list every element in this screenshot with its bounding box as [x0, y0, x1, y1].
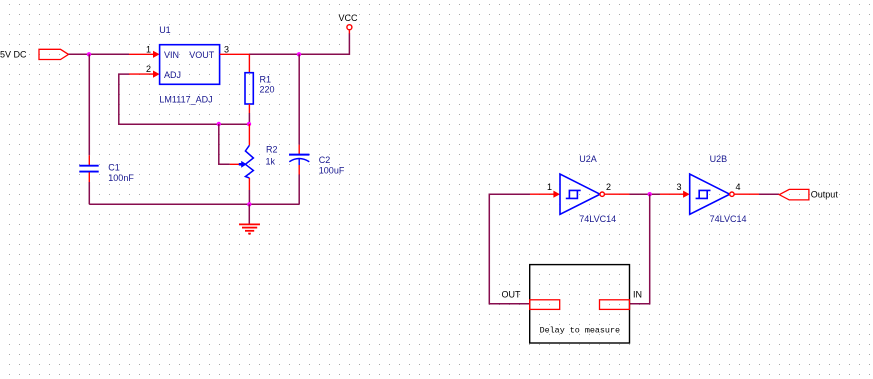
pin 4 of U2B: [734, 182, 759, 194]
svg-text:LM1117_ADJ: LM1117_ADJ: [159, 94, 212, 104]
wire C1 bottom: [88, 182, 90, 204]
svg-text:220: 220: [260, 85, 275, 95]
wire C2 bottom: [298, 175, 300, 205]
wire C2 top branch: [298, 54, 300, 145]
delay box Delay to measure: [530, 265, 630, 343]
svg-text:R1: R1: [260, 75, 272, 85]
wire wiper net: [219, 124, 230, 164]
svg-text:C2: C2: [319, 155, 331, 165]
node junction at 249,124: [247, 122, 251, 126]
node junction at 249.3,204: [247, 202, 251, 206]
op-amp U1 LM1117_ADJ body: [160, 45, 220, 85]
svg-text:1: 1: [547, 182, 552, 192]
pin 2 of U2A: [604, 182, 629, 194]
svg-text:2: 2: [146, 64, 151, 74]
svg-text:R2: R2: [266, 145, 278, 155]
wire junction down to IN port: [630, 194, 650, 304]
svg-text:U1: U1: [159, 25, 171, 35]
svg-text:VIN: VIN: [164, 50, 179, 60]
svg-text:3: 3: [224, 44, 229, 54]
node junction at 218.8,124: [217, 122, 221, 126]
pin 1 VIN of U1: [129, 44, 160, 58]
resistor R2 1k rheostat: [230, 124, 278, 190]
svg-text:ADJ: ADJ: [164, 70, 181, 80]
wire R1 bottom to node: [248, 113, 250, 124]
capacitor C2 100uF polarized: [289, 145, 345, 176]
svg-text:OUT: OUT: [502, 289, 522, 299]
wire U2A input net: [489, 194, 530, 304]
pin 3 VOUT of U1: [220, 44, 249, 54]
pin 3 of U2B: [660, 182, 690, 198]
capacitor C1 100nF: [79, 155, 134, 183]
resistor R1 220: [245, 54, 275, 113]
svg-text:VCC: VCC: [339, 13, 359, 23]
port IN: [600, 289, 643, 309]
svg-text:1: 1: [146, 44, 151, 54]
node junction at 649.7,194: [648, 192, 652, 196]
inverter U2B 74LVC14: [690, 154, 747, 224]
port Output: [779, 189, 838, 200]
svg-text:U2A: U2A: [579, 154, 597, 164]
svg-text:Delay to measure: Delay to measure: [540, 326, 620, 336]
wire VOUT net to VCC: [249, 33, 349, 54]
svg-text:4: 4: [735, 182, 740, 192]
power VCC: [339, 13, 359, 34]
svg-text:3: 3: [676, 182, 681, 192]
wire R2 bottom to rail: [248, 190, 250, 204]
svg-text:Output: Output: [811, 190, 839, 200]
svg-text:2: 2: [606, 182, 611, 192]
wire 5VDC net: [69, 53, 130, 55]
svg-text:C1: C1: [108, 163, 120, 173]
ground: [239, 204, 260, 233]
wire U2B out to Output port: [759, 193, 779, 195]
wire U2A out to U2B in: [630, 193, 661, 195]
svg-text:74LVC14: 74LVC14: [710, 214, 747, 224]
wire ADJ feedback net: [119, 74, 249, 124]
inverter U2A 74LVC14: [560, 154, 616, 224]
svg-text:U2B: U2B: [710, 154, 728, 164]
svg-text:5V DC: 5V DC: [0, 49, 27, 59]
svg-text:100nF: 100nF: [108, 173, 134, 183]
node junction at 89,54: [87, 52, 91, 56]
wire left vertical C1 branch: [88, 54, 90, 155]
port 5V DC: [0, 49, 69, 59]
pin 2 ADJ of U1: [129, 64, 160, 78]
svg-text:1k: 1k: [266, 156, 276, 166]
pin 1 of U2A: [530, 182, 560, 198]
svg-text:74LVC14: 74LVC14: [579, 214, 616, 224]
svg-text:IN: IN: [633, 289, 642, 299]
svg-text:VOUT: VOUT: [189, 50, 215, 60]
node junction at 298.8,54: [297, 52, 301, 56]
port OUT: [502, 289, 560, 309]
svg-text:100uF: 100uF: [319, 166, 345, 176]
wire bottom rail: [89, 203, 299, 205]
